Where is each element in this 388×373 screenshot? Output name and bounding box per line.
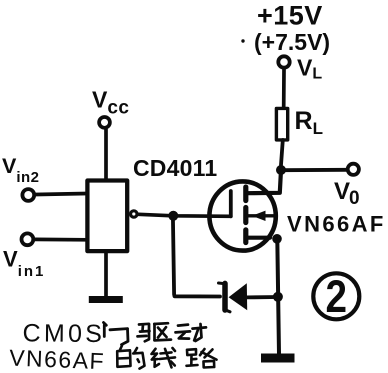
wire gate box to ground (104, 253, 108, 296)
wire drain lead (246, 170, 281, 193)
gate U1 output bubble (131, 211, 137, 217)
figure number 2 circle (313, 273, 359, 319)
node drain junction (276, 165, 286, 175)
diode D1 cathode bottom hook (225, 310, 230, 312)
transistor Q1 channel dash top (243, 187, 248, 201)
transistor Q1 channel dash middle (243, 208, 248, 223)
wire diode to source line (247, 295, 278, 299)
caption hanzi men (104, 323, 129, 345)
caption hanzi xian (152, 348, 176, 367)
node source junction (272, 234, 282, 244)
wire Vcc to gate box (104, 130, 108, 179)
wire Vin2 to gate (36, 194, 87, 195)
svg-text:VN66AF: VN66AF (287, 212, 386, 237)
svg-text:2: 2 (326, 271, 348, 322)
ground right (261, 354, 295, 363)
resistor RL (276, 108, 287, 139)
caption hanzi qu (138, 323, 172, 341)
svg-text:VN66AF: VN66AF (9, 345, 106, 373)
transistor Q1 channel dash bottom (243, 230, 248, 243)
node diode junction (273, 292, 283, 302)
wire source to ground (277, 239, 279, 354)
wire gate output to MOSFET gate (138, 214, 231, 216)
svg-text:+15V: +15V (257, 1, 323, 31)
caption hanzi lu (187, 349, 217, 368)
wire Vin1 to gate (35, 238, 87, 242)
wire VL to RL (282, 70, 286, 108)
transistor Q1 substrate stub (246, 214, 276, 217)
caption hanzi dong (176, 324, 207, 341)
caption hanzi de (117, 346, 144, 369)
gate U1 CD4011 body (87, 181, 127, 252)
terminal Vin1 (22, 233, 34, 245)
terminal V0 (348, 164, 359, 175)
svg-text:(+7.5V): (+7.5V) (254, 29, 330, 55)
terminal Vcc (99, 117, 110, 128)
speck (241, 39, 244, 42)
svg-text:CM0S: CM0S (22, 319, 105, 348)
diode D1 cathode top hook (219, 282, 225, 286)
diode D1 cathode bar (222, 283, 228, 310)
transistor Q1 source stub (246, 236, 270, 240)
node gate junction (168, 211, 178, 221)
terminal Vin2 (22, 189, 34, 201)
diode D1 triangle (229, 283, 248, 310)
ground left (89, 296, 123, 303)
terminal VL (278, 56, 289, 67)
transistor Q1 VN66AF body circle (209, 181, 275, 250)
transistor Q1 substrate arrow (252, 211, 266, 221)
svg-text:CD4011: CD4011 (133, 155, 217, 181)
wire drain node to V0 (281, 168, 347, 172)
wire RL to drain node (281, 140, 283, 165)
transistor Q1 gate electrode (229, 191, 233, 216)
wire gate node down to diode (173, 216, 220, 297)
